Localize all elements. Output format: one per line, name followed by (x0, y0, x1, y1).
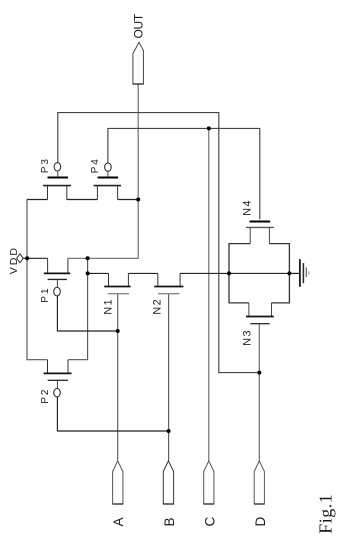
svg-text:P1: P1 (40, 286, 51, 302)
svg-text:B: B (162, 517, 177, 526)
svg-text:VDD: VDD (8, 246, 20, 274)
svg-text:A: A (111, 517, 126, 526)
svg-text:N4: N4 (241, 199, 253, 216)
svg-text:P4: P4 (90, 157, 101, 173)
svg-text:P2: P2 (40, 388, 51, 404)
svg-text:OUT: OUT (132, 13, 146, 38)
svg-text:N2: N2 (152, 298, 164, 315)
svg-text:Fig.1: Fig.1 (316, 494, 336, 534)
svg-text:P3: P3 (40, 157, 51, 173)
svg-text:N3: N3 (242, 329, 254, 346)
svg-text:C: C (202, 517, 217, 527)
svg-text:N1: N1 (103, 298, 115, 315)
svg-text:D: D (253, 517, 268, 527)
